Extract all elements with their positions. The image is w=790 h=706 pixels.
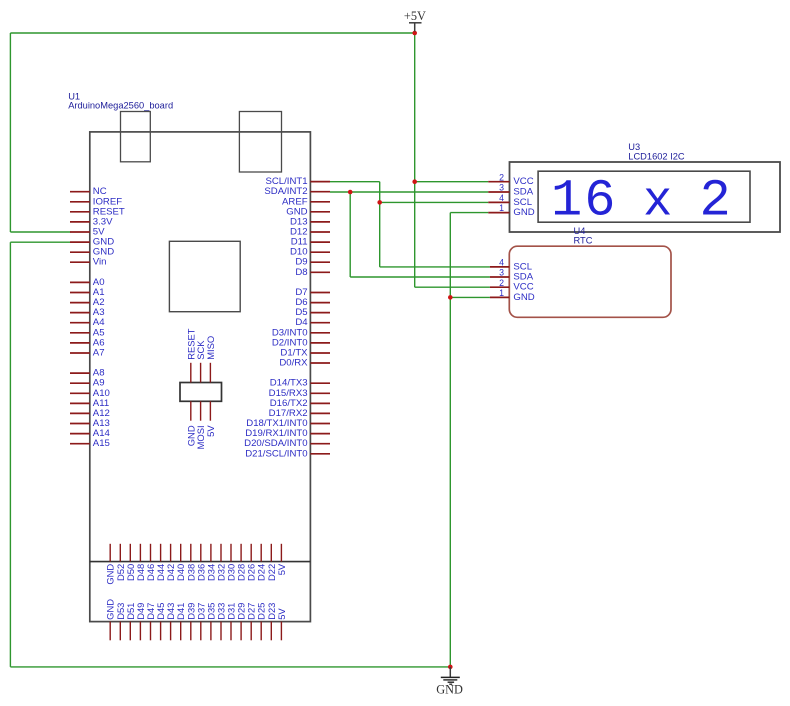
pin A14 (U1 left) xyxy=(70,428,111,439)
pin D2/INT0 (U1 right) xyxy=(272,337,330,348)
junction +5V / U3 VCC xyxy=(412,179,417,184)
pin D43 (U1 bottom outer row) xyxy=(165,603,176,641)
pin D7 (U1 right) xyxy=(295,287,330,298)
pin 5V (U1 bottom outer row) xyxy=(276,608,287,641)
pin D26 (U1 bottom inner row) xyxy=(246,544,257,581)
pin D11 (U1 right) xyxy=(291,237,330,248)
pin 5V (U1 bottom inner row) xyxy=(276,544,287,575)
svg-text:1: 1 xyxy=(499,203,504,213)
pin SDA/INT2 (U1 right) xyxy=(264,186,330,197)
pin 4 SCL (U3) xyxy=(488,193,532,208)
pin 2 VCC (U4) xyxy=(490,278,534,293)
pin GND (U1 right) xyxy=(286,206,330,217)
wire GND feed from U1 GND pin xyxy=(10,241,70,243)
svg-text:MISO: MISO xyxy=(205,336,216,360)
pin RESET (U1 ICSP top) xyxy=(185,328,196,382)
svg-text:D8: D8 xyxy=(295,267,307,278)
pin D18/TX1/INT0 (U1 right) xyxy=(246,418,330,429)
pin D49 (U1 bottom outer row) xyxy=(135,603,146,641)
U1 bottom header divider line xyxy=(90,561,311,563)
wire +5V vertical drop xyxy=(414,33,416,287)
wire left GND drop xyxy=(9,242,11,667)
pin D23 (U1 bottom outer row) xyxy=(266,603,277,641)
op U1 ArduinoMega2560 body xyxy=(90,132,311,622)
pin 3.3V (U1 left) xyxy=(70,216,113,227)
pin 1 GND (U3) xyxy=(488,203,534,218)
svg-text:GND: GND xyxy=(513,292,534,303)
pin D0/RX (U1 right) xyxy=(279,358,330,369)
pin A2 (U1 left) xyxy=(70,297,105,308)
pin D48 (U1 bottom inner row) xyxy=(135,544,146,581)
pin D39 (U1 bottom outer row) xyxy=(185,603,196,641)
pin A6 (U1 left) xyxy=(70,337,105,348)
svg-text:5V: 5V xyxy=(276,563,287,575)
pin D31 (U1 bottom outer row) xyxy=(226,603,237,641)
svg-text:3: 3 xyxy=(499,183,504,193)
pin 4 SCL (U4) xyxy=(490,258,533,273)
wire bottom GND rail xyxy=(10,666,450,668)
pin Vin (U1 left) xyxy=(70,257,107,268)
pin A1 (U1 left) xyxy=(70,287,105,298)
U1 ICSP header rectangle xyxy=(180,383,222,402)
pin D50 (U1 bottom inner row) xyxy=(125,544,136,581)
pin D40 (U1 bottom inner row) xyxy=(175,544,186,581)
pin A5 (U1 left) xyxy=(70,327,105,338)
pin D36 (U1 bottom inner row) xyxy=(195,544,206,581)
svg-text:GND: GND xyxy=(513,207,534,218)
pin D46 (U1 bottom inner row) xyxy=(145,544,156,581)
svg-text:A7: A7 xyxy=(93,348,105,359)
wire SCL to U4 pin4 xyxy=(380,266,490,268)
svg-text:2: 2 xyxy=(499,172,504,182)
svg-text:RTC: RTC xyxy=(574,236,593,246)
pin A8 (U1 left) xyxy=(70,368,105,379)
svg-text:+5V: +5V xyxy=(404,9,426,23)
pin A4 (U1 left) xyxy=(70,317,105,328)
module U4 RTC body xyxy=(509,246,671,317)
svg-text:4: 4 xyxy=(499,193,504,203)
pin D41 (U1 bottom outer row) xyxy=(175,603,186,641)
wire SCL from U1 SCL/INT1 xyxy=(330,181,380,183)
wire 5V feed into U1 5V pin xyxy=(10,231,70,233)
wire +5V to U4 VCC xyxy=(415,286,490,288)
svg-text:GND: GND xyxy=(436,682,463,696)
svg-text:4: 4 xyxy=(499,258,504,268)
wire +5V top rail xyxy=(10,32,414,34)
junction SCL branch xyxy=(377,200,382,205)
junction GND rail / GND symbol xyxy=(448,665,453,670)
svg-text:ArduinoMega2560_board: ArduinoMega2560_board xyxy=(68,101,173,111)
pin A15 (U1 left) xyxy=(70,438,110,449)
pin GND (U1 left) xyxy=(70,247,114,258)
pin GND (U1 bottom outer row) xyxy=(105,599,116,641)
pin D38 (U1 bottom inner row) xyxy=(185,544,196,581)
pin D4 (U1 right) xyxy=(295,317,330,328)
pin D15/RX3 (U1 right) xyxy=(269,388,330,399)
pin D3/INT0 (U1 right) xyxy=(272,327,330,338)
pin D25 (U1 bottom outer row) xyxy=(256,603,267,641)
pin D12 (U1 right) xyxy=(290,227,330,238)
pin D33 (U1 bottom outer row) xyxy=(216,603,227,641)
junction +5V rail corner xyxy=(412,31,417,36)
svg-text:2: 2 xyxy=(700,172,731,231)
pin D30 (U1 bottom inner row) xyxy=(226,544,237,581)
U1 power jack rectangle xyxy=(239,112,281,173)
power symbol GND xyxy=(436,667,463,696)
pin D21/SCL/INT0 (U1 right) xyxy=(245,448,330,459)
pin D8 (U1 right) xyxy=(295,267,330,278)
pin D5 (U1 right) xyxy=(295,307,330,318)
svg-text:LCD1602 I2C: LCD1602 I2C xyxy=(628,152,685,162)
pin 2 VCC (U3) xyxy=(488,172,533,187)
pin D35 (U1 bottom outer row) xyxy=(205,603,216,641)
pin SCL/INT1 (U1 right) xyxy=(265,176,330,187)
pin D34 (U1 bottom inner row) xyxy=(205,544,216,581)
U1 USB connector rectangle xyxy=(121,112,151,162)
pin A7 (U1 left) xyxy=(70,348,105,359)
pin D22 (U1 bottom inner row) xyxy=(266,544,277,581)
pin D51 (U1 bottom outer row) xyxy=(125,603,136,641)
pin IOREF (U1 left) xyxy=(70,196,122,207)
pin NC (U1 left) xyxy=(70,186,107,197)
pin A13 (U1 left) xyxy=(70,418,110,429)
pin A9 (U1 left) xyxy=(70,378,105,389)
wire SDA from U1 SDA/INT2 to U3 pin3 xyxy=(330,191,488,193)
pin D13 (U1 right) xyxy=(290,216,330,227)
junction GND / U4 GND xyxy=(448,295,453,300)
pin A12 (U1 left) xyxy=(70,408,110,419)
pin A10 (U1 left) xyxy=(70,388,110,399)
svg-text:x: x xyxy=(643,174,672,230)
svg-text:16: 16 xyxy=(551,172,617,231)
pin D42 (U1 bottom inner row) xyxy=(165,544,176,581)
svg-text:2: 2 xyxy=(499,278,504,288)
power symbol +5V xyxy=(404,9,426,32)
U1 MCU chip square xyxy=(169,241,240,311)
pin D53 (U1 bottom outer row) xyxy=(115,603,126,641)
U3 LCD screen inner rectangle xyxy=(538,171,750,222)
pin D28 (U1 bottom inner row) xyxy=(236,544,247,581)
pin 1 GND (U4) xyxy=(490,288,535,303)
pin D52 (U1 bottom inner row) xyxy=(115,544,126,581)
pin GND (U1 left) xyxy=(70,237,114,248)
svg-text:SDA: SDA xyxy=(513,187,533,198)
pin GND (U1 bottom inner row) xyxy=(105,544,116,585)
svg-text:5V: 5V xyxy=(276,608,287,620)
pin RESET (U1 left) xyxy=(70,206,125,217)
svg-text:1: 1 xyxy=(499,288,504,298)
wire SCL to U3 pin4 xyxy=(380,201,489,203)
wire GND from U3 pin1 xyxy=(450,212,488,214)
pin D1/TX (U1 right) xyxy=(280,348,330,359)
wire GND vertical xyxy=(449,213,451,667)
pin D9 (U1 right) xyxy=(295,257,330,268)
display U3 LCD1602 I2C body xyxy=(510,162,781,232)
pin D10 (U1 right) xyxy=(290,247,330,258)
wire SCL vertical xyxy=(379,182,381,267)
svg-text:A15: A15 xyxy=(93,438,110,449)
pin D20/SDA/INT0 (U1 right) xyxy=(244,438,330,449)
pin D45 (U1 bottom outer row) xyxy=(155,603,166,641)
pin A0 (U1 left) xyxy=(70,277,105,288)
pin 5V (U1 ICSP bottom) xyxy=(205,401,216,437)
svg-text:D21/SCL/INT0: D21/SCL/INT0 xyxy=(245,448,307,459)
pin D47 (U1 bottom outer row) xyxy=(145,603,156,641)
svg-text:D0/RX: D0/RX xyxy=(279,358,308,369)
wire SDA vertical xyxy=(349,192,351,277)
pin D16/TX2 (U1 right) xyxy=(270,398,330,409)
svg-text:3: 3 xyxy=(499,268,504,278)
U3 screen text 16 x 2 xyxy=(551,172,731,231)
svg-text:Vin: Vin xyxy=(93,257,107,268)
pin D37 (U1 bottom outer row) xyxy=(195,603,206,641)
pin D17/RX2 (U1 right) xyxy=(269,408,330,419)
pin MISO (U1 ICSP top) xyxy=(205,336,216,383)
pin 3 SDA (U4) xyxy=(490,268,534,283)
pin SCK (U1 ICSP top) xyxy=(195,340,206,383)
pin D32 (U1 bottom inner row) xyxy=(216,544,227,581)
junction SDA branch xyxy=(348,190,353,195)
wire SDA to U4 pin3 xyxy=(350,276,490,278)
wire left +5V drop to 5V pin xyxy=(9,33,11,232)
wire +5V to U3 VCC xyxy=(415,181,489,183)
pin D44 (U1 bottom inner row) xyxy=(155,544,166,581)
pin MOSI (U1 ICSP bottom) xyxy=(195,401,206,449)
svg-text:U3: U3 xyxy=(628,142,640,152)
pin D6 (U1 right) xyxy=(295,297,330,308)
pin AREF (U1 right) xyxy=(282,196,330,207)
svg-text:5V: 5V xyxy=(205,425,216,437)
pin A11 (U1 left) xyxy=(70,398,109,409)
pin D27 (U1 bottom outer row) xyxy=(246,603,257,641)
pin GND (U1 ICSP bottom) xyxy=(185,401,196,446)
pin A3 (U1 left) xyxy=(70,307,105,318)
pin D29 (U1 bottom outer row) xyxy=(236,603,247,641)
wire GND to U4 pin1 xyxy=(450,296,490,298)
pin 3 SDA (U3) xyxy=(488,183,533,198)
pin 5V (U1 left) xyxy=(70,227,105,238)
pin D24 (U1 bottom inner row) xyxy=(256,544,267,581)
pin D19/RX1/INT0 (U1 right) xyxy=(245,428,330,439)
pin D14/TX3 (U1 right) xyxy=(270,378,330,389)
